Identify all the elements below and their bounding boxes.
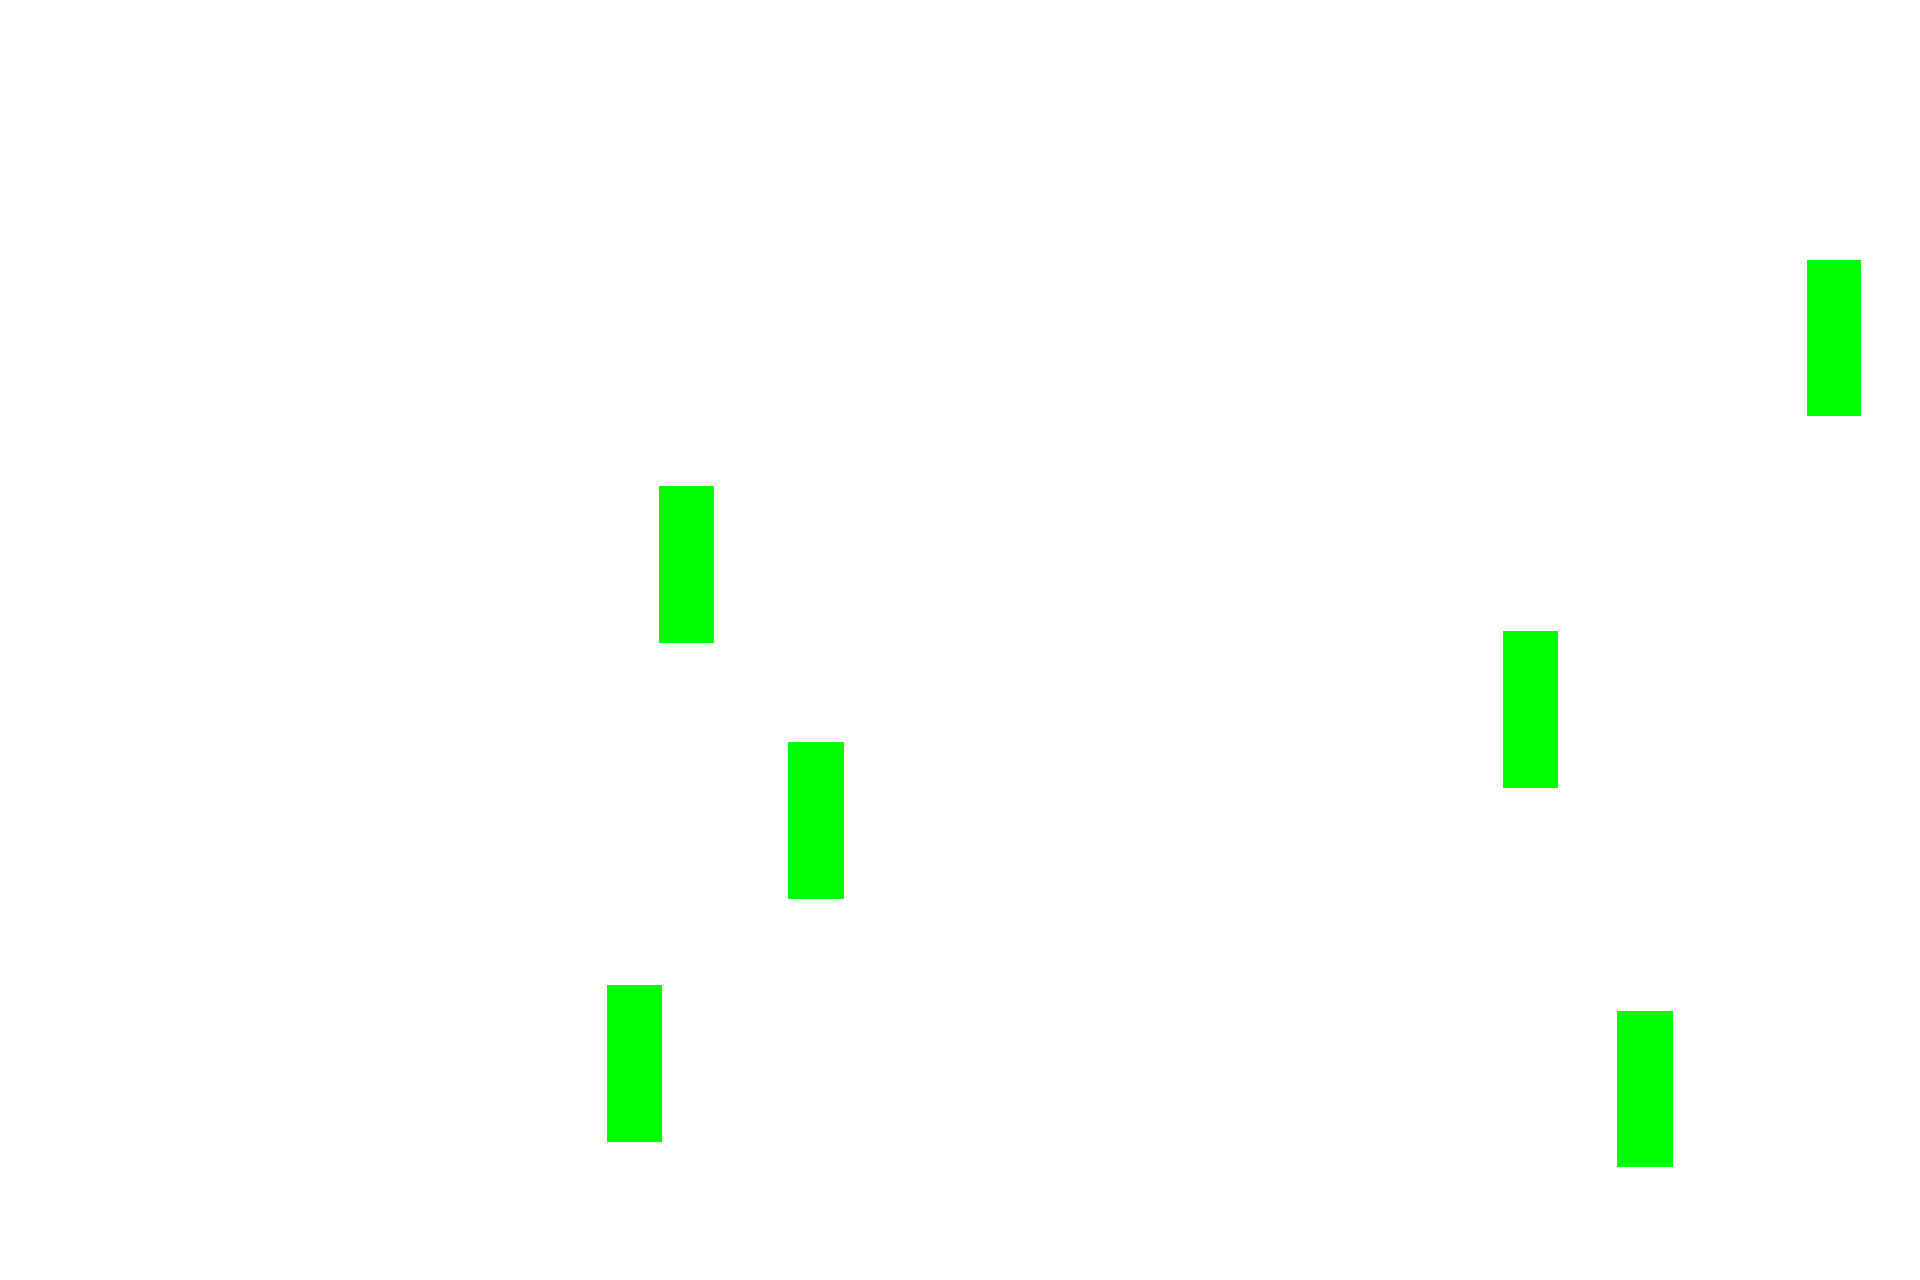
green mask rect 2 (upper middle-left): [659, 486, 714, 643]
green mask rect 1 (top right): [1807, 260, 1861, 416]
green mask rect 6 (bottom right): [1617, 1011, 1673, 1167]
green mask rect 3 (center): [788, 742, 844, 899]
green mask rect 4 (right middle): [1503, 631, 1558, 788]
green mask rect 5 (bottom left-center): [607, 985, 662, 1142]
